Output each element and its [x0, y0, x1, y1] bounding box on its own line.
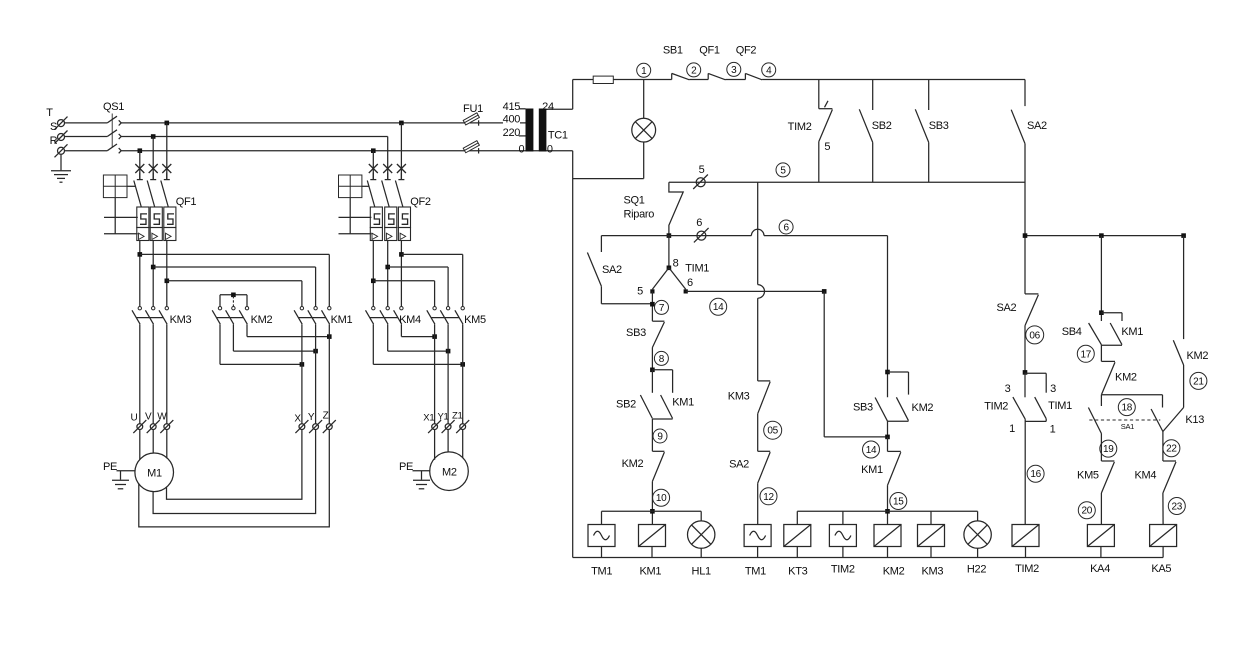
svg-text:0: 0	[547, 144, 553, 156]
svg-text:10: 10	[656, 493, 667, 504]
svg-text:1: 1	[1009, 423, 1015, 435]
svg-text:W: W	[157, 412, 167, 423]
svg-text:6: 6	[783, 222, 789, 233]
svg-text:17: 17	[1081, 349, 1092, 360]
svg-text:3: 3	[1005, 383, 1011, 395]
svg-text:18: 18	[1122, 403, 1133, 414]
svg-text:5: 5	[637, 285, 643, 297]
svg-text:PE: PE	[399, 461, 413, 473]
svg-text:KM2: KM2	[1115, 371, 1137, 383]
svg-text:SB2: SB2	[616, 399, 636, 411]
svg-text:KM2: KM2	[622, 458, 644, 470]
svg-text:KM2: KM2	[1186, 350, 1208, 362]
svg-text:12: 12	[763, 492, 774, 503]
svg-text:SB3: SB3	[626, 327, 646, 339]
svg-text:Z1: Z1	[452, 411, 463, 422]
svg-text:HL1: HL1	[692, 566, 711, 578]
svg-text:5: 5	[780, 165, 786, 176]
svg-text:14: 14	[866, 445, 877, 456]
svg-text:6: 6	[687, 277, 693, 289]
svg-text:14: 14	[713, 302, 724, 313]
svg-text:5: 5	[824, 141, 830, 153]
svg-text:KA5: KA5	[1151, 563, 1171, 575]
svg-text:TIM1: TIM1	[1048, 400, 1072, 412]
svg-text:KM1: KM1	[1121, 326, 1143, 338]
svg-text:X1: X1	[423, 413, 434, 424]
svg-text:KM2: KM2	[251, 314, 273, 326]
svg-text:SA1: SA1	[1121, 422, 1134, 431]
svg-text:KM2: KM2	[883, 566, 905, 578]
svg-text:KM1: KM1	[639, 566, 661, 578]
svg-text:KM1: KM1	[861, 464, 883, 476]
svg-text:V: V	[145, 412, 152, 423]
svg-text:KM2: KM2	[912, 402, 934, 414]
svg-text:M1: M1	[147, 468, 162, 480]
svg-text:2: 2	[691, 65, 697, 76]
svg-text:415: 415	[503, 101, 521, 113]
svg-text:TIM1: TIM1	[685, 263, 709, 275]
svg-text:Y1: Y1	[437, 412, 448, 423]
svg-text:0: 0	[518, 144, 524, 156]
svg-text:21: 21	[1193, 376, 1204, 387]
svg-text:19: 19	[1103, 444, 1114, 455]
svg-text:1: 1	[641, 66, 647, 77]
svg-text:QF1: QF1	[176, 196, 197, 208]
svg-text:TIM2: TIM2	[1015, 563, 1039, 575]
svg-text:SB3: SB3	[853, 402, 873, 414]
svg-text:SB1: SB1	[663, 45, 683, 57]
svg-text:8: 8	[659, 354, 665, 365]
svg-text:SA2: SA2	[996, 302, 1016, 314]
svg-text:KM1: KM1	[672, 397, 694, 409]
svg-text:X: X	[294, 414, 301, 425]
svg-text:3: 3	[731, 65, 737, 76]
svg-text:SA2: SA2	[729, 459, 749, 471]
svg-text:KM1: KM1	[331, 314, 353, 326]
svg-text:SA2: SA2	[602, 264, 622, 276]
svg-text:H22: H22	[967, 564, 986, 576]
svg-text:M2: M2	[442, 467, 457, 479]
svg-text:400: 400	[503, 113, 521, 125]
svg-text:15: 15	[893, 496, 904, 507]
svg-text:SB2: SB2	[872, 120, 892, 132]
svg-text:KT3: KT3	[788, 566, 807, 578]
svg-text:SA2: SA2	[1027, 120, 1047, 132]
svg-text:5: 5	[699, 164, 705, 176]
svg-text:SB4: SB4	[1062, 326, 1082, 338]
svg-text:QF1: QF1	[699, 45, 720, 57]
svg-text:QF2: QF2	[736, 45, 757, 57]
svg-text:PE: PE	[103, 461, 117, 473]
svg-text:KA4: KA4	[1090, 563, 1110, 575]
svg-text:SQ1: SQ1	[624, 195, 645, 207]
svg-text:KM5: KM5	[1077, 469, 1099, 481]
svg-text:KM4: KM4	[399, 314, 421, 326]
svg-text:SB3: SB3	[929, 120, 949, 132]
svg-text:TIM2: TIM2	[984, 401, 1008, 413]
svg-text:K13: K13	[1185, 414, 1204, 426]
svg-text:6: 6	[696, 217, 702, 229]
svg-text:7: 7	[659, 303, 665, 314]
svg-text:Z: Z	[323, 411, 329, 422]
svg-text:TM1: TM1	[745, 566, 766, 578]
svg-text:Y: Y	[308, 412, 315, 423]
svg-text:06: 06	[1029, 330, 1040, 341]
svg-text:FU1: FU1	[463, 103, 483, 115]
svg-text:TIM2: TIM2	[788, 121, 812, 133]
svg-text:05: 05	[767, 426, 778, 437]
svg-text:Riparo: Riparo	[624, 209, 655, 221]
svg-text:QS1: QS1	[103, 101, 124, 113]
svg-text:9: 9	[657, 431, 663, 442]
svg-text:S: S	[50, 121, 57, 133]
svg-text:4: 4	[766, 65, 772, 76]
svg-text:TIM2: TIM2	[831, 564, 855, 576]
svg-text:8: 8	[673, 258, 679, 270]
svg-text:20: 20	[1082, 506, 1093, 517]
svg-text:U: U	[131, 413, 138, 424]
svg-text:24: 24	[542, 101, 554, 113]
svg-text:R: R	[50, 135, 58, 147]
svg-text:KM4: KM4	[1134, 469, 1156, 481]
svg-text:220: 220	[503, 127, 521, 139]
svg-text:KM3: KM3	[170, 314, 192, 326]
svg-text:QF2: QF2	[410, 196, 431, 208]
svg-text:TM1: TM1	[591, 566, 612, 578]
svg-text:KM5: KM5	[464, 314, 486, 326]
svg-text:KM3: KM3	[728, 391, 750, 403]
svg-text:T: T	[46, 107, 53, 119]
svg-text:22: 22	[1166, 444, 1177, 455]
svg-text:23: 23	[1172, 501, 1183, 512]
svg-text:3: 3	[1050, 383, 1056, 395]
svg-text:1: 1	[1050, 423, 1056, 435]
svg-text:TC1: TC1	[548, 129, 568, 141]
svg-text:16: 16	[1030, 469, 1041, 480]
svg-text:KM3: KM3	[921, 566, 943, 578]
